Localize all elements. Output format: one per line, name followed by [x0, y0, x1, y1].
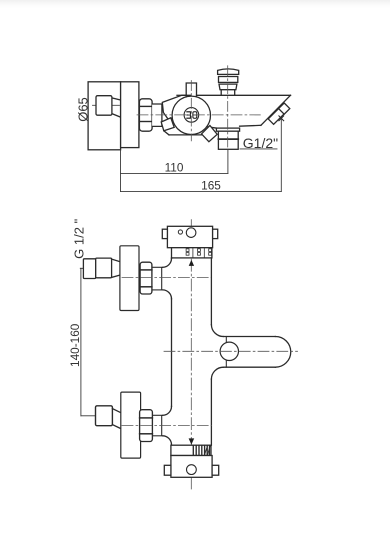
dim 140-160	[80, 268, 82, 416]
outlet body G1/2	[218, 131, 238, 149]
diverter stem	[221, 90, 235, 96]
bottom cap right ear	[212, 465, 219, 475]
band mark 3	[209, 249, 212, 255]
hex nut front	[140, 262, 152, 294]
spout top edge	[223, 336, 275, 338]
body right edge upper	[210, 258, 212, 325]
bottom cap	[171, 456, 212, 478]
lower-right diamond tab	[202, 126, 218, 142]
svg-text:G 1/2 ": G 1/2 "	[72, 218, 87, 258]
vertical centerline	[190, 220, 192, 489]
svg-text:140-160: 140-160	[68, 323, 82, 367]
diverter knob band1	[218, 69, 239, 75]
taper top	[112, 409, 120, 413]
pipe	[96, 406, 113, 426]
escutcheon plate	[120, 246, 139, 311]
pipe midline	[80, 267, 111, 269]
svg-text:110: 110	[165, 160, 184, 174]
body diagonal end	[261, 95, 291, 125]
inlet centerline	[122, 276, 211, 278]
dim line 110	[121, 172, 228, 174]
wall plate (escutcheon) O65	[88, 82, 121, 150]
temp scale band	[172, 248, 212, 258]
top cap right ear	[213, 229, 218, 238]
nut facet upper	[140, 269, 152, 271]
inlet centerline	[122, 425, 212, 427]
ext line outlet center	[227, 149, 229, 173]
hex nut (side view)	[139, 99, 152, 131]
main horizontal centerline	[137, 114, 260, 116]
hose connector nipple	[268, 108, 284, 124]
dim stub to pipe	[81, 415, 96, 417]
label G1/2 underline	[240, 148, 277, 150]
pipe body section	[96, 258, 112, 278]
outlet flange	[216, 128, 239, 131]
spout fillet bottom	[211, 367, 223, 379]
taper bottom	[112, 275, 120, 277]
band mark 1	[186, 249, 189, 255]
body top edge right segment	[197, 94, 291, 96]
cap small circle	[178, 230, 182, 234]
nut facet upper	[140, 417, 153, 419]
washer	[152, 267, 162, 290]
top cap left ear	[162, 229, 167, 238]
body left edge upper	[171, 257, 173, 260]
ext line left	[120, 150, 122, 192]
band divider 1	[192, 248, 194, 258]
pipe thread section	[83, 259, 95, 279]
band divider 2	[203, 248, 205, 258]
hood (valve body taper behind knob)	[162, 95, 191, 119]
body left edge mid	[171, 299, 173, 407]
outlet divider thick	[218, 138, 238, 140]
washer	[152, 415, 161, 436]
body bottom edge to outlet	[203, 126, 216, 128]
spout base line	[225, 337, 227, 368]
escutcheon plate	[121, 392, 141, 458]
38 mark digit 3	[187, 112, 191, 118]
lower-left lever tab	[161, 118, 174, 131]
tab to body line	[164, 131, 169, 135]
spout circle	[220, 342, 238, 360]
hose x mark	[279, 116, 284, 121]
down arrow	[189, 438, 195, 444]
outlet vertical centerline	[227, 66, 229, 149]
hex nut front	[140, 410, 153, 442]
cylinder section	[152, 104, 162, 126]
boss fillet top	[163, 406, 172, 415]
scale hatch	[205, 446, 211, 456]
spout fillet top	[211, 325, 223, 337]
spout centerline	[164, 350, 298, 352]
top cap	[167, 226, 212, 247]
flow scale band	[171, 445, 211, 455]
wall union body	[96, 96, 112, 116]
body top edge left segment	[177, 94, 186, 96]
boss fillet bottom	[163, 436, 172, 445]
svg-text:165: 165	[201, 179, 221, 193]
union taper bottom	[112, 114, 120, 117]
body bottom edge right of outlet	[240, 124, 261, 127]
mounting bracket	[121, 82, 139, 148]
nut facet line upper	[139, 105, 152, 107]
up arrow	[189, 260, 194, 266]
boss fillet top	[163, 258, 172, 267]
union centerline	[93, 104, 120, 106]
band mark 2	[198, 249, 201, 255]
knob stub	[186, 83, 196, 97]
ext line hose	[280, 119, 282, 191]
diverter band2	[219, 77, 238, 83]
cap big circle	[186, 228, 196, 238]
body right edge lower	[210, 379, 212, 445]
knob vertical centerline	[190, 81, 192, 141]
hose connector nut	[279, 103, 290, 114]
nut facet line lower	[139, 121, 152, 123]
inner circle	[184, 108, 199, 123]
boss fillet bottom	[163, 290, 172, 299]
nut facet lower	[140, 286, 152, 288]
bottom cap circle	[187, 465, 197, 475]
scale ticks	[193, 446, 209, 456]
38 mark digit 8 bar	[193, 114, 197, 116]
spout bottom edge	[223, 366, 275, 368]
spout end cap	[275, 337, 290, 368]
union taper top	[112, 98, 120, 100]
diverter band3	[219, 84, 237, 90]
svg-text:Ø65: Ø65	[76, 97, 91, 122]
dim line 165	[121, 190, 282, 192]
knob circle	[172, 96, 210, 134]
38 mark digit 8	[193, 112, 197, 119]
body tangent line below knob	[169, 134, 202, 136]
taper top	[112, 259, 120, 262]
bottom cap left ear	[164, 465, 171, 475]
taper bottom	[112, 425, 120, 429]
nut facet lower	[140, 433, 153, 435]
